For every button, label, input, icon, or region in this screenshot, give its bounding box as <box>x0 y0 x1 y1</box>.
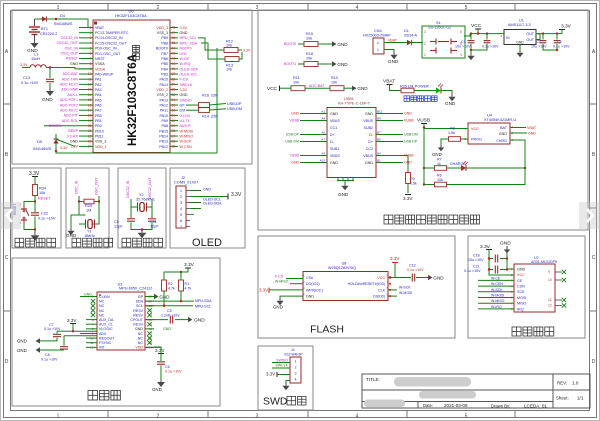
svg-text:GND: GND <box>433 275 444 280</box>
label reset block <box>15 238 24 247</box>
svg-text:C9: C9 <box>114 220 119 224</box>
resistor R18 <box>304 52 332 67</box>
svg-text:SWDIO: SWDIO <box>180 98 192 102</box>
capacitor C21 <box>464 265 508 274</box>
svg-text:GND: GND <box>291 161 299 165</box>
svg-text:USB-DM: USB-DM <box>404 133 418 137</box>
resistor R34 <box>33 185 52 213</box>
svg-text:W-MISO: W-MISO <box>180 134 194 138</box>
svg-text:W-SCK: W-SCK <box>180 140 193 144</box>
svg-text:39: 39 <box>172 72 176 76</box>
svg-text:A12: A12 <box>320 159 326 163</box>
svg-text:VCC: VCC <box>471 23 482 29</box>
svg-text:23: 23 <box>88 139 92 143</box>
svg-text:3.3-RX: 3.3-RX <box>67 134 79 138</box>
left net labels OSC/RESET <box>57 36 79 66</box>
svg-text:CONN_01X07: CONN_01X07 <box>174 181 198 185</box>
svg-text:6: 6 <box>460 30 462 34</box>
svg-text:PA2: PA2 <box>95 83 102 87</box>
capacitor C7 <box>40 323 73 341</box>
svg-text:5: 5 <box>180 213 182 217</box>
svg-text:RESV: RESV <box>133 323 143 327</box>
svg-text:16: 16 <box>88 103 92 107</box>
svg-text:GND: GND <box>388 59 399 64</box>
svg-text:3.3V: 3.3V <box>184 262 195 268</box>
svg-text:3.3V: 3.3V <box>60 146 68 150</box>
svg-text:OUT: OUT <box>526 38 534 42</box>
ground at EP <box>145 294 170 300</box>
U4 CHRG wire <box>510 140 525 185</box>
svg-text:SUB1: SUB1 <box>330 147 339 151</box>
svg-text:CLKIN: CLKIN <box>99 295 110 299</box>
svg-text:GND: GND <box>357 86 368 91</box>
USB1 shield pins and ground <box>337 178 354 198</box>
svg-text:PB6: PB6 <box>161 57 168 61</box>
svg-text:9: 9 <box>548 270 550 274</box>
power flag 3.3V reset block <box>29 171 40 184</box>
net label VCC R11 <box>267 86 291 93</box>
svg-text:PA6: PA6 <box>95 103 102 107</box>
power flag 3.3V wireless <box>480 244 514 275</box>
connector CN3 <box>363 29 407 54</box>
capacitor C1 <box>455 34 474 50</box>
svg-text:IN: IN <box>506 36 510 40</box>
svg-text:AUX-R: AUX-R <box>180 124 192 128</box>
svg-text:BEEP: BEEP <box>68 129 78 133</box>
svg-text:4: 4 <box>180 207 182 211</box>
power flag 3.3V VLOGIC <box>67 318 97 332</box>
svg-text:GND: GND <box>528 131 536 135</box>
switch SW1 reset <box>13 202 35 230</box>
resistor R20 1M <box>78 196 100 212</box>
svg-text:7: 7 <box>90 57 92 61</box>
svg-text:GND: GND <box>159 294 170 299</box>
section box crystal <box>66 168 109 248</box>
svg-text:VSSA: VSSA <box>95 62 105 66</box>
svg-text:2: 2 <box>180 195 182 199</box>
svg-text:4: 4 <box>460 53 462 57</box>
svg-text:0.1u >10V: 0.1u >10V <box>38 217 56 221</box>
svg-text:PC13-TAMPER-RTC: PC13-TAMPER-RTC <box>95 31 129 35</box>
svg-text:BAT: BAT <box>500 126 508 130</box>
svg-text:40: 40 <box>172 67 176 71</box>
section box power <box>258 10 588 230</box>
left net labels ADC <box>60 72 79 123</box>
svg-text:VSS_3: VSS_3 <box>157 31 168 35</box>
svg-text:12pF: 12pF <box>114 224 123 228</box>
svg-text:10k: 10k <box>226 44 232 48</box>
section box SWD <box>258 346 313 410</box>
svg-text:W-CE: W-CE <box>491 276 501 280</box>
power flag 3.3V gyro pullups <box>181 262 195 280</box>
IC U8 pins <box>303 274 389 299</box>
svg-text:GND: GND <box>291 112 299 116</box>
svg-text:22R: 22R <box>211 115 218 119</box>
svg-text:11: 11 <box>548 298 552 302</box>
svg-text:C13: C13 <box>23 76 30 80</box>
svg-text:A1: A1 <box>321 110 325 114</box>
svg-text:GND: GND <box>516 41 524 45</box>
svg-text:GND: GND <box>330 112 338 116</box>
svg-text:4: 4 <box>90 41 92 45</box>
svg-text:3.3V: 3.3V <box>259 288 268 293</box>
svg-text:3.3V: 3.3V <box>155 348 165 353</box>
svg-text:10uH: 10uH <box>31 57 40 61</box>
svg-text:0.1u >10V: 0.1u >10V <box>41 357 58 361</box>
svg-text:B4: B4 <box>377 152 381 156</box>
svg-text:CE: CE <box>517 279 523 283</box>
svg-text:C5: C5 <box>167 309 172 313</box>
svg-text:TITLE:: TITLE: <box>366 377 380 382</box>
power flag 3.3V to VDDA <box>20 63 30 68</box>
svg-text:VCC: VCC <box>517 273 525 277</box>
svg-text:0.1u >10V: 0.1u >10V <box>482 44 499 48</box>
svg-text:F-CS: F-CS <box>180 78 189 82</box>
label clock block <box>122 238 131 247</box>
svg-text:PB11: PB11 <box>95 134 104 138</box>
svg-text:2021-03-09: 2021-03-09 <box>444 403 468 408</box>
svg-text:VBAT: VBAT <box>383 79 395 85</box>
svg-text:WP#(IO2 ): WP#(IO2 ) <box>306 288 323 292</box>
svg-text:AUX_CL: AUX_CL <box>99 323 113 327</box>
svg-text:D5: D5 <box>37 140 42 144</box>
svg-text:VBAT: VBAT <box>95 26 105 30</box>
svg-text:20: 20 <box>88 124 92 128</box>
title block <box>362 374 590 409</box>
resistor R14 22R <box>186 107 242 119</box>
svg-text:29: 29 <box>172 124 176 128</box>
svg-text:NRST: NRST <box>95 57 106 61</box>
svg-text:PB5: PB5 <box>161 62 168 66</box>
resistor R6 <box>424 174 525 187</box>
capacitor C2 <box>470 34 499 52</box>
svg-text:W-SCK: W-SCK <box>399 285 411 289</box>
svg-text:3.3V: 3.3V <box>67 318 77 323</box>
svg-text:W-MISO: W-MISO <box>491 299 505 303</box>
svg-text:46: 46 <box>172 36 176 40</box>
svg-text:6: 6 <box>180 219 182 223</box>
svg-text:VDD: VDD <box>135 346 143 350</box>
svg-text:USB-DM: USB-DM <box>285 140 299 144</box>
carousel left chevron overlay <box>0 202 21 229</box>
svg-text:C6: C6 <box>165 365 170 369</box>
svg-text:FLASH: FLASH <box>310 324 344 336</box>
svg-text:VSS_2: VSS_2 <box>157 93 168 97</box>
svg-text:VUSB: VUSB <box>417 118 430 124</box>
svg-text:MPU-SCL: MPU-SCL <box>195 304 211 308</box>
wire MPU-SCL <box>145 291 211 308</box>
svg-text:IN4148WS: IN4148WS <box>33 147 52 151</box>
svg-text:3.3V: 3.3V <box>20 63 28 67</box>
resistor R11 <box>291 76 330 91</box>
svg-text:3.3V: 3.3V <box>266 372 275 377</box>
svg-text:GND: GND <box>404 112 412 116</box>
svg-text:NC: NC <box>99 313 105 317</box>
label SWD block <box>263 396 306 408</box>
svg-text:24: 24 <box>88 145 92 149</box>
svg-text:AUX-L: AUX-L <box>67 93 78 97</box>
svg-text:10u >10V: 10u >10V <box>455 44 471 48</box>
IC U5 HK32F103C8T6A body <box>93 9 170 153</box>
svg-text:48: 48 <box>172 26 176 30</box>
svg-text:PA15: PA15 <box>159 78 168 82</box>
IC U3 MPU-6050 body <box>97 283 152 351</box>
svg-text:W-SCK: W-SCK <box>491 288 503 292</box>
svg-text:W-MOSI: W-MOSI <box>180 129 194 133</box>
diode D1 <box>404 29 423 45</box>
svg-text:C: C <box>5 255 9 261</box>
svg-text:PB7: PB7 <box>161 52 168 56</box>
svg-text:44: 44 <box>172 46 176 50</box>
svg-text:MPU-6050_C24112: MPU-6050_C24112 <box>119 287 152 291</box>
svg-text:SWD: SWD <box>263 396 288 408</box>
resistor R8 <box>441 127 468 146</box>
svg-text:PA13: PA13 <box>159 98 168 102</box>
svg-text:GND: GND <box>70 139 78 143</box>
resistor R2 pullup <box>162 272 189 291</box>
svg-text:PB1: PB1 <box>95 119 102 123</box>
connector USB1 body <box>327 97 376 178</box>
svg-text:U1: U1 <box>519 19 524 23</box>
svg-text:VBAT: VBAT <box>527 126 537 130</box>
inductor L1 <box>30 53 93 69</box>
connector USB1 pins <box>330 112 374 165</box>
svg-text:3: 3 <box>90 36 92 40</box>
svg-text:DM: DM <box>180 109 186 113</box>
FLASH VCC wire and 3.3V <box>388 256 400 279</box>
svg-text:GND: GND <box>70 62 78 66</box>
svg-text:MPU_SDA: MPU_SDA <box>180 41 198 45</box>
svg-text:0.1u >10V: 0.1u >10V <box>464 269 481 273</box>
svg-text:1.5k: 1.5k <box>410 181 417 185</box>
svg-text:USB-DP: USB-DP <box>286 133 300 137</box>
svg-text:10k: 10k <box>437 178 443 182</box>
svg-text:U1-TX: U1-TX <box>180 119 191 123</box>
svg-text:AUX_DA: AUX_DA <box>99 318 114 322</box>
svg-text:NC: NC <box>99 304 105 308</box>
capacitor C9 <box>114 207 142 230</box>
svg-text:A7: A7 <box>321 138 325 142</box>
svg-text:1: 1 <box>57 414 60 420</box>
svg-text:VUSB: VUSB <box>289 119 299 123</box>
IC U5 left pins <box>79 26 129 149</box>
IC U4 charger body <box>464 114 516 145</box>
svg-text:3.3V: 3.3V <box>390 256 400 261</box>
svg-text:OLED-SDA: OLED-SDA <box>180 67 199 71</box>
svg-text:10k: 10k <box>226 68 232 72</box>
regulator U1 AMS1117 <box>500 19 562 45</box>
svg-text:GND: GND <box>180 93 188 97</box>
svg-text:U8: U8 <box>342 262 347 266</box>
svg-text:B6: B6 <box>377 138 381 142</box>
svg-text:PA11: PA11 <box>160 109 168 113</box>
svg-text:6: 6 <box>90 52 92 56</box>
svg-text:OSC_OUT: OSC_OUT <box>95 177 99 195</box>
svg-text:GND: GND <box>163 327 171 331</box>
svg-text:C22: C22 <box>41 212 48 216</box>
svg-text:AS01-ML01DP5: AS01-ML01DP5 <box>531 260 557 264</box>
svg-text:3.3V: 3.3V <box>231 192 242 198</box>
connector J2 CONN_01X07 <box>174 176 198 229</box>
svg-text:VDD_2: VDD_2 <box>156 88 168 92</box>
svg-text:26: 26 <box>172 139 176 143</box>
svg-text:VDDA: VDDA <box>95 67 106 71</box>
svg-text:VUSB: VUSB <box>404 119 414 123</box>
svg-text:5: 5 <box>90 46 92 50</box>
svg-text:37: 37 <box>172 83 176 87</box>
svg-text:D: D <box>5 359 9 365</box>
svg-text:XS2-WR-5P: XS2-WR-5P <box>284 353 303 357</box>
svg-text:SWCLK: SWCLK <box>180 83 193 87</box>
svg-text:DP: DP <box>180 103 186 107</box>
capacitor C13 <box>21 68 54 89</box>
svg-text:10u >10V: 10u >10V <box>468 258 484 262</box>
svg-text:13: 13 <box>88 88 92 92</box>
svg-text:38: 38 <box>172 77 176 81</box>
carousel right chevron overlay <box>579 202 600 229</box>
svg-text:8: 8 <box>90 62 92 66</box>
svg-text:VBUS: VBUS <box>363 119 373 123</box>
svg-text:W-CE: W-CE <box>180 57 190 61</box>
svg-text:PB0: PB0 <box>95 114 102 118</box>
svg-text:12: 12 <box>88 83 92 87</box>
svg-text:PB10: PB10 <box>95 129 104 133</box>
label work indicator blue <box>404 96 410 102</box>
svg-text:J4: J4 <box>291 348 295 352</box>
svg-text:PA10: PA10 <box>159 114 168 118</box>
net VBAT power LED row <box>383 79 401 91</box>
svg-text:12: 12 <box>548 304 552 308</box>
svg-text:VDD_3: VDD_3 <box>156 26 168 30</box>
IC U3 left pins <box>86 295 115 350</box>
svg-text:USB-DM: USB-DM <box>227 107 242 111</box>
svg-text:PA3: PA3 <box>95 88 102 92</box>
svg-text:OSC32_IN: OSC32_IN <box>126 180 130 198</box>
IC U7 right pins <box>548 270 566 308</box>
svg-text:ADC-POT1: ADC-POT1 <box>60 98 78 102</box>
ground C1 C2 <box>467 50 474 60</box>
svg-text:1: 1 <box>180 189 182 193</box>
svg-text:14: 14 <box>88 93 92 97</box>
svg-text:3: 3 <box>424 30 426 34</box>
svg-text:VUSB: VUSB <box>289 154 299 158</box>
svg-text:OSC_IN: OSC_IN <box>75 180 79 194</box>
svg-text:22R: 22R <box>211 94 218 98</box>
left net labels BOOT1/TX/RX <box>44 124 79 149</box>
svg-text:PB4: PB4 <box>161 67 168 71</box>
svg-text:3: 3 <box>180 201 182 205</box>
svg-text:BT1: BT1 <box>41 27 48 31</box>
svg-text:GND: GND <box>180 31 188 35</box>
svg-text:Sheet:: Sheet: <box>556 396 569 401</box>
ground SWD <box>285 383 287 386</box>
svg-text:10k: 10k <box>306 36 312 40</box>
svg-text:MISO: MISO <box>517 302 527 306</box>
svg-text:CSN: CSN <box>517 285 525 289</box>
ground under C6 <box>152 379 165 392</box>
svg-text:35: 35 <box>172 93 176 97</box>
ground power LED <box>445 94 456 106</box>
svg-text:RESET: RESET <box>66 57 79 61</box>
ground under C13 <box>42 88 54 103</box>
svg-text:GND: GND <box>445 101 456 106</box>
svg-text:VCC: VCC <box>267 86 278 92</box>
svg-text:PB2: PB2 <box>95 124 102 128</box>
svg-text:CR1220-2: CR1220-2 <box>40 32 57 36</box>
svg-text:GND: GND <box>42 97 53 103</box>
svg-text:ADC-KEY2: ADC-KEY2 <box>60 108 78 112</box>
svg-text:SWCLK: SWCLK <box>276 364 289 368</box>
switch S1 <box>422 21 470 58</box>
svg-text:VBUS: VBUS <box>330 119 340 123</box>
svg-text:MPU_SCL: MPU_SCL <box>180 36 197 40</box>
svg-text:0.1u >10V: 0.1u >10V <box>407 268 424 272</box>
svg-text:2: 2 <box>424 42 426 46</box>
svg-text:W-MOSI: W-MOSI <box>399 291 412 295</box>
svg-text:W-MOSI: W-MOSI <box>491 294 504 298</box>
svg-text:W-CSN: W-CSN <box>180 145 193 149</box>
svg-text:HK32F103C8T6A: HK32F103C8T6A <box>127 54 139 146</box>
svg-text:10k: 10k <box>306 56 312 60</box>
svg-text:REV:: REV: <box>557 381 567 386</box>
svg-text:1.0: 1.0 <box>572 381 579 386</box>
net label GND at CLKIN <box>80 293 97 297</box>
section box reset button <box>12 168 61 248</box>
svg-text:ADC-THR: ADC-THR <box>62 77 79 81</box>
net VCC flag <box>471 23 482 34</box>
ground left C8 <box>17 347 40 353</box>
svg-text:PC14-OSC32_IN: PC14-OSC32_IN <box>95 36 123 40</box>
U4 BAT VBAT label <box>510 126 537 135</box>
svg-text:PB12: PB12 <box>159 145 168 149</box>
svg-text:KH-TYPE-C-16P-T: KH-TYPE-C-16P-T <box>338 101 371 105</box>
svg-text:L1: L1 <box>34 53 38 57</box>
svg-text:GND: GND <box>135 327 143 331</box>
ground U1 <box>516 45 523 58</box>
svg-text:OSC_IN: OSC_IN <box>65 46 79 50</box>
resistor R16 22R <box>186 94 242 108</box>
svg-text:RESET: RESET <box>38 197 51 201</box>
svg-text:36: 36 <box>172 88 176 92</box>
svg-text:1: 1 <box>424 53 426 57</box>
IC U5 vertical part name text <box>127 45 139 146</box>
ground wireless top <box>500 241 514 270</box>
battery BT1 <box>29 19 57 40</box>
svg-text:RESV: RESV <box>133 313 143 317</box>
USB1 left wires and labels <box>285 110 327 165</box>
svg-text:PA5: PA5 <box>95 98 102 102</box>
svg-text:GND: GND <box>17 339 27 344</box>
svg-text:F-CS: F-CS <box>275 275 284 279</box>
svg-text:1: 1 <box>295 359 297 363</box>
svg-text:32: 32 <box>172 108 176 112</box>
capacitor C6 <box>157 362 182 379</box>
svg-text:1M: 1M <box>86 208 91 212</box>
capacitor C22 <box>31 212 56 233</box>
svg-text:PB15: PB15 <box>159 129 168 133</box>
svg-text:BOOT0: BOOT0 <box>156 47 168 51</box>
svg-text:DO(IO1): DO(IO1) <box>306 282 320 286</box>
svg-text:OLED-SDA: OLED-SDA <box>203 202 222 206</box>
svg-text:J2: J2 <box>181 176 185 180</box>
svg-text:A4: A4 <box>321 117 325 121</box>
svg-text:41: 41 <box>172 62 176 66</box>
svg-text:PB14: PB14 <box>159 134 168 138</box>
svg-text:10k: 10k <box>293 80 299 84</box>
wire AD0 row <box>80 332 97 334</box>
ground R8 <box>432 145 444 157</box>
IC U7 AS01 body <box>514 256 557 312</box>
